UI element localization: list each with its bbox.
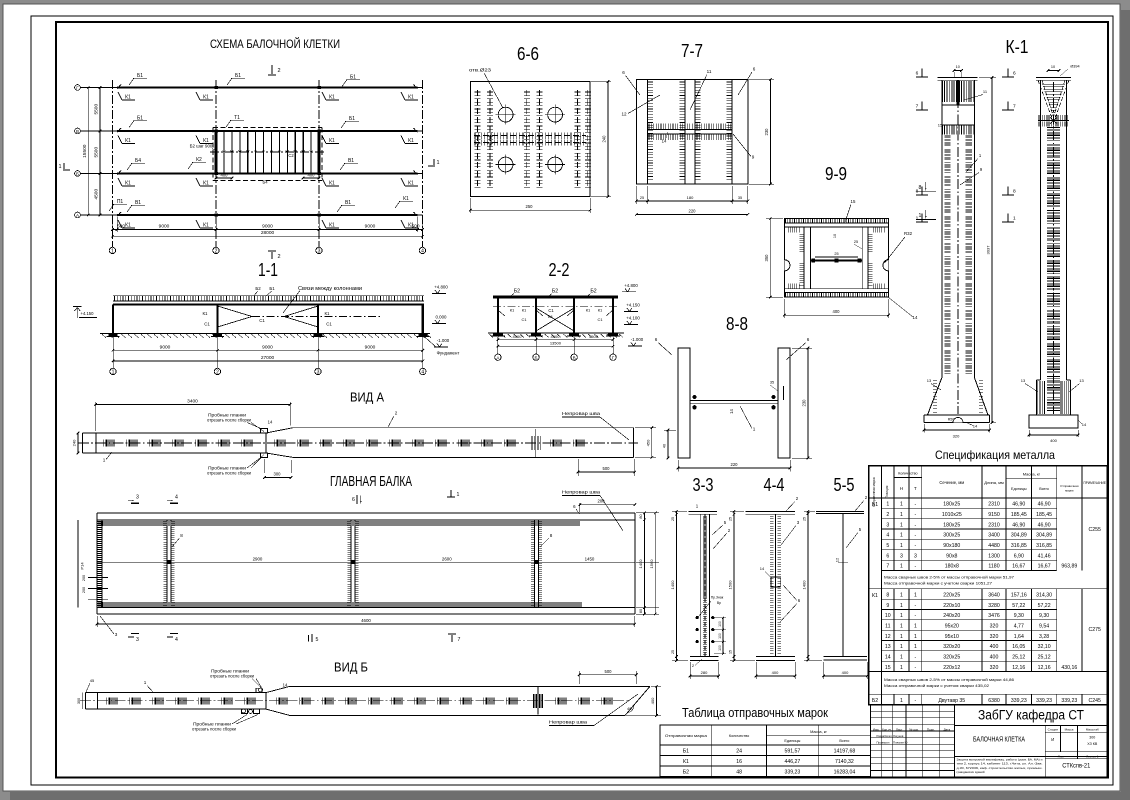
svg-text:Б2: Б2: [872, 698, 878, 704]
svg-text:316,85: 316,85: [1036, 543, 1052, 549]
svg-text:-: -: [915, 543, 917, 549]
svg-text:Стадия: Стадия: [1048, 727, 1059, 731]
svg-text:100: 100: [718, 633, 722, 639]
svg-text:13500: 13500: [550, 340, 562, 345]
svg-text:К1: К1: [203, 138, 209, 144]
svg-text:Б1: Б1: [683, 748, 689, 754]
svg-text:+4.150: +4.150: [626, 303, 640, 308]
svg-text:180х25: 180х25: [943, 522, 960, 528]
svg-text:К1: К1: [203, 95, 209, 101]
svg-text:1: 1: [900, 665, 903, 671]
svg-text:230: 230: [802, 399, 807, 407]
svg-text:1-1: 1-1: [258, 260, 278, 280]
svg-text:1: 1: [457, 492, 460, 498]
svg-text:25: 25: [671, 650, 675, 654]
svg-text:Дата: Дата: [943, 727, 950, 731]
svg-text:2310: 2310: [988, 522, 1000, 528]
svg-text:4480: 4480: [988, 543, 1000, 549]
svg-text:15500: 15500: [82, 144, 88, 158]
svg-text:95х20: 95х20: [945, 623, 959, 629]
svg-text:Лист: Лист: [1058, 754, 1065, 758]
svg-text:16: 16: [736, 759, 742, 765]
svg-text:180: 180: [687, 195, 694, 200]
svg-text:5: 5: [316, 637, 319, 643]
svg-text:14: 14: [268, 420, 273, 425]
svg-text:46,90: 46,90: [1038, 522, 1051, 528]
svg-text:Б2: Б2: [683, 770, 689, 776]
svg-text:12,16: 12,16: [1038, 665, 1051, 671]
svg-text:К1: К1: [329, 181, 335, 187]
svg-text:Позиция: Позиция: [885, 485, 889, 498]
svg-text:К1: К1: [408, 138, 414, 144]
svg-text:16,67: 16,67: [1038, 564, 1051, 570]
svg-text:1: 1: [900, 502, 903, 508]
svg-text:К1: К1: [329, 138, 335, 144]
svg-text:9000: 9000: [262, 224, 273, 230]
svg-text:2: 2: [395, 411, 398, 416]
svg-text:4500: 4500: [589, 334, 599, 339]
svg-text:57,22: 57,22: [1038, 603, 1051, 609]
svg-text:К1: К1: [598, 308, 603, 313]
svg-text:400: 400: [772, 670, 779, 675]
svg-text:+4.800: +4.800: [434, 285, 448, 290]
svg-text:250: 250: [526, 204, 534, 209]
svg-text:8: 8: [886, 592, 889, 598]
svg-text:1: 1: [914, 634, 917, 640]
svg-text:Изм.: Изм.: [873, 727, 880, 731]
svg-text:С2: С2: [288, 153, 294, 158]
svg-text:6: 6: [753, 67, 756, 72]
svg-text:Б2: Б2: [552, 289, 558, 295]
svg-text:41,46: 41,46: [1038, 553, 1051, 559]
svg-text:В1: В1: [548, 314, 554, 319]
svg-text:С255: С255: [1088, 527, 1101, 533]
svg-text:16,67: 16,67: [1012, 564, 1025, 570]
svg-text:6: 6: [916, 71, 919, 77]
svg-text:1: 1: [919, 213, 922, 219]
svg-text:К1: К1: [329, 95, 335, 101]
svg-text:К1: К1: [125, 181, 131, 187]
svg-text:3037: 3037: [986, 245, 991, 255]
svg-text:R50: R50: [948, 418, 955, 422]
svg-text:100: 100: [718, 621, 722, 627]
svg-text:27000: 27000: [261, 355, 275, 361]
svg-text:3: 3: [115, 632, 118, 637]
svg-text:К1: К1: [408, 95, 414, 101]
svg-text:-: -: [915, 564, 917, 570]
svg-text:100: 100: [718, 645, 722, 651]
svg-text:3: 3: [900, 553, 903, 559]
svg-text:12,16: 12,16: [1012, 665, 1025, 671]
svg-text:Б4: Б4: [262, 180, 268, 185]
svg-text:9-9: 9-9: [825, 164, 847, 184]
svg-text:Ø394: Ø394: [1070, 65, 1079, 69]
svg-text:К1: К1: [203, 311, 209, 316]
svg-text:6: 6: [807, 337, 810, 342]
svg-text:500: 500: [411, 224, 419, 230]
svg-text:400: 400: [833, 309, 841, 314]
svg-text:35: 35: [770, 381, 774, 385]
svg-text:1: 1: [58, 164, 61, 170]
svg-text:1: 1: [112, 370, 115, 376]
svg-text:25: 25: [729, 517, 733, 521]
svg-text:48: 48: [736, 770, 742, 776]
svg-text:13: 13: [927, 378, 932, 383]
svg-text:7: 7: [886, 564, 889, 570]
svg-text:9000: 9000: [262, 345, 273, 351]
svg-text:Непровар шва: Непровар шва: [549, 720, 587, 726]
svg-text:-: -: [915, 665, 917, 671]
svg-text:12: 12: [621, 112, 627, 117]
svg-text:Непровар шва: Непровар шва: [562, 490, 600, 496]
svg-text:1: 1: [900, 522, 903, 528]
svg-text:6380: 6380: [988, 698, 1000, 704]
svg-text:1: 1: [900, 613, 903, 619]
svg-text:320: 320: [953, 434, 960, 439]
svg-text:5-5: 5-5: [834, 475, 855, 495]
svg-text:3-3: 3-3: [693, 475, 714, 495]
svg-text:Двутавр 35: Двутавр 35: [938, 698, 965, 704]
svg-text:32,10: 32,10: [1038, 644, 1051, 650]
svg-text:Отправочная: Отправочная: [1060, 484, 1079, 488]
svg-text:С1: С1: [204, 322, 210, 327]
svg-text:240х20: 240х20: [943, 613, 960, 619]
svg-text:Разработал: Разработал: [877, 734, 893, 738]
svg-text:-: -: [915, 522, 917, 528]
svg-text:1: 1: [914, 644, 917, 650]
svg-text:К1: К1: [203, 223, 209, 229]
svg-text:7-7: 7-7: [681, 41, 703, 61]
svg-text:25,12: 25,12: [1012, 655, 1025, 661]
svg-text:6: 6: [655, 337, 658, 342]
svg-text:14: 14: [913, 315, 918, 320]
svg-text:БАЛОЧНАЯ КЛЕТКА: БАЛОЧНАЯ КЛЕТКА: [973, 737, 1025, 744]
svg-text:С1: С1: [326, 322, 332, 327]
svg-text:15: 15: [729, 650, 733, 654]
svg-text:180х25: 180х25: [943, 502, 960, 508]
svg-text:1560: 1560: [649, 559, 654, 569]
svg-text:1: 1: [436, 160, 439, 166]
svg-text:Количество: Количество: [898, 472, 917, 476]
svg-text:ХЗ КВ: ХЗ КВ: [1087, 742, 1098, 746]
svg-text:А: А: [76, 213, 79, 218]
svg-text:Непровар шва: Непровар шва: [562, 411, 600, 417]
svg-text:5500: 5500: [94, 147, 100, 158]
svg-text:отрезать после сборки: отрезать после сборки: [207, 418, 252, 423]
svg-text:2: 2: [216, 370, 219, 376]
svg-text:отрезать после сборки: отрезать после сборки: [192, 727, 237, 732]
svg-text:10: 10: [1051, 65, 1055, 69]
svg-text:Сечение, мм: Сечение, мм: [939, 480, 964, 485]
svg-text:339,23: 339,23: [784, 770, 800, 776]
svg-text:К-1: К-1: [1006, 37, 1029, 57]
svg-text:3: 3: [886, 522, 889, 528]
svg-text:14: 14: [729, 409, 734, 414]
svg-text:14: 14: [760, 566, 765, 571]
svg-text:46,90: 46,90: [1012, 502, 1025, 508]
svg-text:1: 1: [900, 644, 903, 650]
svg-text:1: 1: [900, 655, 903, 661]
svg-text:1180: 1180: [988, 564, 999, 570]
svg-text:2900: 2900: [253, 557, 263, 562]
svg-text:1450: 1450: [585, 557, 595, 562]
svg-text:10: 10: [885, 613, 891, 619]
svg-text:-1.000: -1.000: [631, 337, 644, 342]
svg-text:Логунов: Логунов: [893, 734, 904, 738]
svg-text:Б2: Б2: [590, 289, 596, 295]
svg-text:185,45: 185,45: [1036, 512, 1052, 518]
svg-text:9000: 9000: [160, 345, 171, 351]
svg-text:-: -: [915, 655, 917, 661]
svg-text:95х10: 95х10: [945, 634, 959, 640]
svg-text:25,12: 25,12: [1038, 655, 1051, 661]
svg-text:Пляскин Ю: Пляскин Ю: [893, 741, 908, 745]
svg-text:304,89: 304,89: [1011, 533, 1027, 539]
svg-text:С1: С1: [259, 318, 265, 323]
svg-text:Кол.уч.: Кол.уч.: [882, 727, 892, 731]
svg-text:-: -: [915, 533, 917, 539]
svg-text:3400: 3400: [187, 399, 198, 405]
svg-text:2-2: 2-2: [549, 260, 570, 280]
svg-text:Масса: Масса: [1065, 727, 1074, 731]
svg-text:240: 240: [72, 439, 77, 446]
svg-text:14197,68: 14197,68: [834, 748, 856, 754]
svg-text:15: 15: [938, 123, 943, 128]
svg-text:314,30: 314,30: [1036, 592, 1052, 598]
svg-text:13: 13: [885, 644, 891, 650]
svg-text:-: -: [915, 502, 917, 508]
svg-text:220: 220: [731, 462, 739, 467]
svg-text:15: 15: [885, 665, 891, 671]
svg-text:Н: Н: [900, 486, 903, 491]
svg-text:339,23: 339,23: [1011, 698, 1027, 704]
svg-text:316,85: 316,85: [1011, 543, 1027, 549]
svg-text:300: 300: [1089, 736, 1095, 740]
svg-text:11: 11: [707, 69, 712, 74]
svg-text:3: 3: [318, 249, 321, 255]
svg-text:45: 45: [90, 678, 95, 683]
svg-text:185,45: 185,45: [1011, 512, 1027, 518]
svg-text:7: 7: [916, 104, 919, 110]
svg-text:В: В: [76, 129, 79, 134]
svg-text:4,77: 4,77: [1014, 623, 1024, 629]
svg-text:5500: 5500: [94, 104, 100, 115]
svg-text:0.000: 0.000: [436, 315, 448, 320]
svg-text:1400: 1400: [670, 580, 675, 590]
svg-text:1: 1: [900, 564, 903, 570]
svg-text:отрезать после сборки: отрезать после сборки: [207, 471, 252, 476]
svg-text:3,28: 3,28: [1039, 634, 1049, 640]
svg-text:304,89: 304,89: [1036, 533, 1052, 539]
svg-text:+4.800: +4.800: [624, 283, 638, 288]
svg-text:1: 1: [900, 698, 903, 704]
svg-text:А: А: [496, 355, 499, 360]
svg-text:4: 4: [421, 370, 424, 376]
svg-text:5: 5: [886, 543, 889, 549]
svg-text:3: 3: [136, 495, 139, 501]
svg-text:1: 1: [900, 623, 903, 629]
svg-text:-: -: [915, 698, 917, 704]
svg-text:7140,32: 7140,32: [835, 759, 854, 765]
svg-text:230: 230: [764, 128, 769, 136]
svg-text:1: 1: [111, 249, 114, 255]
svg-text:Подп.: Подп.: [927, 727, 935, 731]
svg-text:220х10: 220х10: [943, 603, 960, 609]
svg-text:2: 2: [215, 249, 218, 255]
svg-text:25: 25: [834, 252, 838, 256]
svg-text:ГЛАВНАЯ БАЛКА: ГЛАВНАЯ БАЛКА: [330, 473, 412, 490]
svg-text:Отправочная марка: Отправочная марка: [665, 734, 708, 738]
svg-text:400: 400: [650, 697, 655, 704]
svg-text:марки: марки: [1065, 489, 1074, 493]
svg-text:2310: 2310: [988, 502, 1000, 508]
svg-text:300х25: 300х25: [943, 533, 960, 539]
svg-text:К1: К1: [329, 223, 335, 229]
svg-text:240: 240: [601, 135, 606, 143]
svg-text:ПРИМЕЧАНИЕ: ПРИМЕЧАНИЕ: [1083, 481, 1105, 485]
svg-text:R32: R32: [904, 231, 913, 236]
svg-text:№ док.: № док.: [909, 727, 919, 731]
svg-text:14: 14: [662, 139, 667, 144]
svg-text:10: 10: [833, 234, 837, 238]
svg-text:К1: К1: [408, 181, 414, 187]
svg-text:4: 4: [421, 249, 424, 255]
svg-text:220: 220: [689, 208, 697, 213]
svg-text:9000: 9000: [365, 345, 376, 351]
svg-text:8: 8: [916, 189, 919, 195]
svg-text:+4.150: +4.150: [81, 311, 95, 316]
svg-text:Фундамент: Фундамент: [437, 351, 460, 356]
svg-text:9,30: 9,30: [1039, 613, 1049, 619]
svg-text:К1: К1: [872, 593, 878, 599]
svg-text:500: 500: [603, 466, 611, 471]
svg-text:1: 1: [900, 533, 903, 539]
svg-text:200: 200: [82, 587, 86, 593]
svg-text:9: 9: [752, 155, 755, 160]
svg-text:В: В: [573, 355, 576, 360]
svg-text:1: 1: [900, 603, 903, 609]
svg-text:-1.000: -1.000: [437, 338, 450, 343]
svg-text:Лист: Лист: [896, 727, 903, 731]
svg-text:11: 11: [885, 623, 890, 629]
svg-text:ВИД Б: ВИД Б: [334, 661, 368, 675]
svg-text:14: 14: [283, 683, 288, 688]
svg-text:400: 400: [990, 655, 999, 661]
svg-text:Б: Б: [76, 171, 79, 176]
svg-text:Длина, мм: Длина, мм: [984, 480, 1004, 485]
svg-text:25: 25: [854, 240, 858, 244]
svg-text:С1: С1: [548, 308, 554, 313]
svg-text:14: 14: [1082, 422, 1087, 427]
svg-text:28000: 28000: [261, 230, 275, 236]
svg-text:9,30: 9,30: [1014, 613, 1024, 619]
svg-text:Спецификация металла: Спецификация металла: [935, 448, 1055, 462]
svg-text:1: 1: [916, 216, 919, 222]
svg-text:Б1: Б1: [872, 502, 878, 508]
svg-text:7: 7: [458, 637, 461, 643]
svg-text:-: -: [915, 613, 917, 619]
svg-text:Масса сварных швов 2-5% от мас: Масса сварных швов 2-5% от массы отправо…: [884, 574, 1014, 579]
svg-text:К1: К1: [203, 181, 209, 187]
svg-text:Масса отправочной марки с учет: Масса отправочной марки с учетом сварки …: [884, 683, 989, 688]
svg-text:16283,04: 16283,04: [834, 770, 856, 776]
svg-text:280: 280: [701, 670, 708, 675]
svg-text:К1: К1: [510, 308, 515, 313]
svg-text:35: 35: [738, 196, 742, 200]
svg-text:25: 25: [803, 517, 807, 521]
svg-text:320: 320: [990, 634, 999, 640]
svg-text:1010х25: 1010х25: [942, 512, 962, 518]
svg-text:К1: К1: [586, 308, 591, 313]
svg-text:339,23: 339,23: [1036, 698, 1052, 704]
svg-text:Связи между колоннами: Связи между колоннами: [298, 286, 362, 292]
svg-text:500: 500: [117, 224, 125, 230]
svg-text:3: 3: [317, 370, 320, 376]
svg-text:12: 12: [835, 557, 840, 562]
svg-text:СТКспв-21: СТКспв-21: [1062, 763, 1090, 770]
svg-text:14: 14: [973, 424, 978, 429]
svg-text:Таблица отправочных марок: Таблица отправочных марок: [682, 706, 828, 720]
svg-text:Единицы: Единицы: [1011, 487, 1027, 491]
svg-text:гражданских зданий: гражданских зданий: [957, 770, 985, 774]
svg-text:200: 200: [82, 575, 86, 581]
svg-text:80: 80: [639, 514, 643, 518]
svg-text:отв.Ø23: отв.Ø23: [469, 68, 492, 73]
svg-text:500: 500: [605, 669, 613, 674]
svg-text:8: 8: [919, 185, 922, 191]
svg-text:9: 9: [886, 603, 889, 609]
svg-text:4: 4: [175, 495, 178, 501]
svg-text:4600: 4600: [361, 618, 371, 623]
svg-text:1500: 1500: [728, 580, 733, 590]
svg-text:400: 400: [221, 173, 229, 178]
svg-text:4500: 4500: [513, 334, 523, 339]
svg-text:350: 350: [764, 254, 769, 262]
svg-text:Единицы: Единицы: [784, 739, 800, 743]
svg-text:1: 1: [103, 458, 106, 463]
svg-text:Количество: Количество: [729, 734, 749, 738]
svg-text:180х8: 180х8: [945, 564, 959, 570]
svg-text:1300: 1300: [988, 553, 1000, 559]
svg-text:Вр: Вр: [717, 601, 721, 605]
svg-text:3476: 3476: [988, 613, 1000, 619]
svg-text:13: 13: [1079, 378, 1084, 383]
svg-text:157,16: 157,16: [1011, 592, 1027, 598]
svg-text:25: 25: [671, 517, 675, 521]
svg-text:1: 1: [900, 543, 903, 549]
svg-text:К1: К1: [325, 311, 331, 316]
svg-text:К1: К1: [125, 95, 131, 101]
svg-text:С1: С1: [597, 317, 603, 322]
svg-text:6: 6: [622, 70, 625, 75]
svg-text:8: 8: [180, 533, 183, 538]
svg-text:-: -: [915, 603, 917, 609]
svg-text:80: 80: [639, 609, 643, 613]
svg-text:И: И: [1051, 737, 1054, 742]
svg-text:1: 1: [753, 427, 756, 432]
svg-text:1: 1: [914, 592, 917, 598]
svg-text:25: 25: [640, 196, 644, 200]
svg-text:9000: 9000: [365, 224, 376, 230]
svg-text:К1: К1: [683, 759, 689, 765]
svg-text:963,89: 963,89: [1061, 564, 1077, 570]
svg-text:8-8: 8-8: [726, 314, 748, 334]
svg-text:К1: К1: [125, 138, 131, 144]
svg-text:12: 12: [885, 634, 891, 640]
svg-text:3: 3: [136, 637, 139, 643]
svg-text:6-6: 6-6: [517, 44, 539, 64]
svg-text:400: 400: [842, 670, 849, 675]
